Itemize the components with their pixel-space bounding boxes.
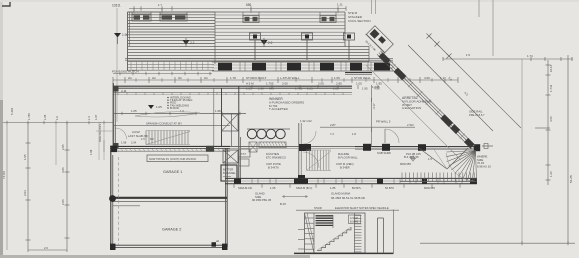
top dimension line [112,3,346,123]
svg-text:52 B76: 52 B76 [385,186,394,190]
svg-text:2.05: 2.05 [61,144,65,150]
svg-text:B.15: B.15 [280,202,286,206]
svg-text:GLAND M.8MA: GLAND M.8MA [331,192,350,196]
svg-text:1.32 1.02: 1.32 1.02 [300,119,312,123]
house left wall [113,83,127,149]
house bottom wall [225,178,477,183]
right dim vertical 1 [521,59,523,243]
svg-text:10.16: 10.16 [549,64,553,72]
svg-text:2.2: 2.2 [268,41,273,45]
svg-text:1.705: 1.705 [266,82,274,86]
svg-text:SPANISH CONSULT AT MY: SPANISH CONSULT AT MY [146,121,182,125]
svg-text:4.66: 4.66 [549,116,553,122]
svg-text:1.26: 1.26 [549,171,553,177]
svg-text:1.74: 1.74 [527,54,533,58]
svg-text:ELEVATOR SHAFT NOTES SPEC VEHI: ELEVATOR SHAFT NOTES SPEC VEHICLE [335,206,389,210]
garage divider wall [109,195,227,206]
svg-text:4.06: 4.06 [374,87,380,91]
top right dimension line [443,53,573,61]
stair detail header [280,195,399,210]
svg-text:2m: 2m [128,76,133,80]
svg-text:1.6: 1.6 [180,109,184,113]
svg-text:A 5.M: A 5.M [246,82,254,86]
svg-text:1.745: 1.745 [27,113,31,120]
svg-text:71.53: 71.53 [2,171,6,179]
svg-text:4.06: 4.06 [424,76,430,80]
right dim vertical 2 [546,60,554,185]
svg-text:AND NO PINS I: AND NO PINS I [98,122,102,142]
svg-text:SIDA B (B.C): SIDA B (B.C) [296,186,312,190]
left dim vertical 2 [56,123,70,249]
garage dashed line [118,157,120,245]
svg-text:2m: 2m [204,76,209,80]
wing head cluster [361,25,394,58]
svg-text:2.06: 2.06 [61,199,65,205]
svg-text:B.KENNEL: B.KENNEL [223,171,236,175]
garage corner dims [87,116,113,160]
svg-text:STUDIO BUILT: STUDIO BUILT [246,76,267,80]
svg-text:1.78: 1.78 [230,76,236,80]
left horizontal dimension [3,121,113,125]
deck planks [128,12,370,71]
svg-text:1.98: 1.98 [89,149,93,155]
svg-text:1.98: 1.98 [215,109,221,113]
gland text left [252,192,272,203]
svg-text:96.45M 96.51.6L 96.B.6D: 96.45M 96.51.6L 96.B.6D [331,196,366,200]
svg-text:10311: 10311 [112,4,121,8]
svg-text:M63/155: M63/155 [400,162,411,166]
svg-text:345: 345 [269,87,274,91]
svg-text:2.04: 2.04 [131,141,137,145]
svg-text:STUD WALL: STUD WALL [354,76,371,80]
interior line y125 [113,121,230,125]
svg-text:1.05: 1.05 [307,87,313,91]
deck level markers mid [183,38,273,47]
svg-text:STAIR: STAIR [314,206,322,210]
svg-text:2.0: 2.0 [44,246,48,250]
kuchen text [266,152,286,170]
svg-text:2m: 2m [152,76,157,80]
side rail text [469,110,485,117]
pont-dee hutch dimension row [112,70,212,76]
interior note block [167,96,192,110]
winner note block [269,97,304,111]
svg-text:B 34ER: B 34ER [340,166,350,170]
comb hatch [400,173,477,182]
svg-text:L-STUD WALL: L-STUD WALL [280,76,300,80]
svg-text:GARAGE 2: GARAGE 2 [162,228,181,232]
svg-text:1.05: 1.05 [270,186,276,190]
svg-text:2.2: 2.2 [190,41,195,45]
svg-text:B FLOOR WALL: B FLOOR WALL [338,156,358,160]
svg-text:1.85: 1.85 [330,186,336,190]
wing vertical dimension [372,85,377,147]
garage note box [147,155,208,162]
boiler room [221,86,250,182]
svg-text:2.04: 2.04 [23,190,27,196]
stair detail box [298,210,394,254]
svg-text:3m: 3m [178,76,183,80]
walkway edge line [125,58,393,60]
svg-text:SUB SURF: SUB SURF [377,151,391,155]
right room wall [355,144,493,167]
svg-text:1.8: 1.8 [352,132,356,136]
bottom dimension row [234,184,460,190]
svg-text:7.2: 7.2 [330,132,334,136]
svg-text:8.98 AU 16: 8.98 AU 16 [477,164,491,168]
stairwell x-brace [214,88,238,146]
corner mark top-left [2,2,10,6]
garage side label [98,122,104,152]
garage 2 label [162,228,181,232]
left stair treads [128,130,190,145]
garage upper dim texts [121,137,154,145]
svg-text:1.11: 1.11 [337,3,343,7]
svg-text:2.85: 2.85 [336,82,342,86]
svg-text:1.05: 1.05 [43,114,47,120]
svg-text:1.7: 1.7 [158,3,162,7]
svg-text:LAST SLAB (M): LAST SLAB (M) [128,134,148,138]
window band [212,62,393,71]
svg-text:GARAGE 1: GARAGE 1 [163,170,182,174]
deck post symbols [250,33,355,60]
svg-text:B 34X76: B 34X76 [268,166,279,170]
svg-text:SIDA B-CD: SIDA B-CD [238,186,252,190]
svg-text:51.25: 51.25 [569,175,573,183]
svg-text:B3 B7L: B3 B7L [352,186,362,190]
sill line [113,89,352,95]
svg-text:ETC RNKMECO: ETC RNKMECO [266,156,286,160]
svg-text:B ROD: B ROD [170,106,179,110]
left dim vertical edge [2,123,7,251]
winder v [419,148,468,169]
house top wall [113,73,380,90]
svg-text:1.95: 1.95 [362,87,368,91]
svg-text:2.05: 2.05 [282,82,288,86]
svg-text:a0: a0 [216,239,220,243]
svg-text:A.M.: A.M. [121,89,127,93]
numbers row under wall [246,85,380,91]
garage 1 label [163,170,182,174]
left bottom dimension line [28,246,67,252]
garage bottom wall [110,239,228,250]
svg-text:2 W3: 2 W3 [407,123,414,127]
svg-text:1.744: 1.744 [549,84,553,92]
sub surf text [377,151,421,156]
fan stairs [446,151,476,182]
svg-text:656: 656 [246,3,252,7]
top reference verticals [372,0,494,56]
svg-text:-4.17: -4.17 [372,103,376,110]
svg-text:RAUME: RAUME [338,152,349,156]
kitchen interior walls [230,119,480,181]
svg-text:A ELEVATION: A ELEVATION [402,106,421,110]
svg-text:1.5: 1.5 [141,137,145,141]
svg-text:5.484: 5.484 [10,107,14,115]
gland text right [331,192,366,201]
raume text [336,152,358,170]
stair detail baseline [294,252,394,254]
deck joist blocks [132,12,336,23]
svg-text:COOL SECTION: COOL SECTION [348,19,371,23]
svg-text:1.5: 1.5 [466,53,470,57]
svg-text:1.705: 1.705 [295,87,303,91]
left dim vertical 1 [23,123,31,249]
svg-text:NOW TROVE SV (CONT) OUR WVJIOU: NOW TROVE SV (CONT) OUR WVJIOU [149,157,196,161]
svg-text:T ACCEPTED: T ACCEPTED [269,107,289,111]
svg-text:1.96: 1.96 [122,33,128,37]
svg-text:PONT-DEE HUTCH: PONT-DEE HUTCH [112,70,139,74]
svg-text:PR WALL 5: PR WALL 5 [376,120,391,124]
svg-text:2.05: 2.05 [318,82,324,86]
svg-text:B.04M2: B.04M2 [350,221,359,224]
interior line y113 [113,109,246,117]
svg-text:1.05: 1.05 [156,105,162,109]
svg-text:1.95: 1.95 [23,154,27,160]
deck level marker left [114,33,128,44]
svg-text:1.5: 1.5 [428,157,432,161]
deck note text [348,11,371,23]
svg-text:2.87: 2.87 [330,123,336,127]
garage top shared wall [110,146,230,153]
svg-text:8.0: 8.0 [150,137,154,141]
svg-text:1.07: 1.07 [94,114,98,120]
svg-text:1.0: 1.0 [55,116,59,120]
diagonal wing band [366,51,475,160]
svg-text:1.05: 1.05 [131,109,137,113]
svg-text:1.98: 1.98 [121,141,127,145]
garage outer walls [111,146,228,248]
svg-text:KÜCHEN: KÜCHEN [266,152,279,156]
svg-text:BETTER: BETTER [223,168,233,172]
svg-text:1.05: 1.05 [334,76,340,80]
column circles [247,129,290,152]
right dim vertical 3 [535,55,573,243]
left rotated dimension texts [10,107,98,155]
svg-text:1.4: 1.4 [87,116,91,120]
kitchen door arc [385,129,399,143]
svg-text:M63/155: M63/155 [424,186,435,190]
svg-text:1.98: 1.98 [258,87,264,91]
wing outer dimensions [408,34,521,135]
svg-text:×××: ××× [241,152,247,156]
room level marker [148,105,162,109]
center stair treads [307,150,332,171]
svg-text:96.45M PBL 05: 96.45M PBL 05 [252,198,272,202]
svg-text:3.06: 3.06 [61,167,65,173]
main dimension row [113,76,458,86]
svg-text:1.05: 1.05 [356,82,362,86]
arretbz note block [402,96,432,110]
stair detail right column [378,218,384,253]
bottom right dimension line [420,241,575,245]
where size text [477,155,491,169]
svg-text:1.05: 1.05 [246,87,252,91]
